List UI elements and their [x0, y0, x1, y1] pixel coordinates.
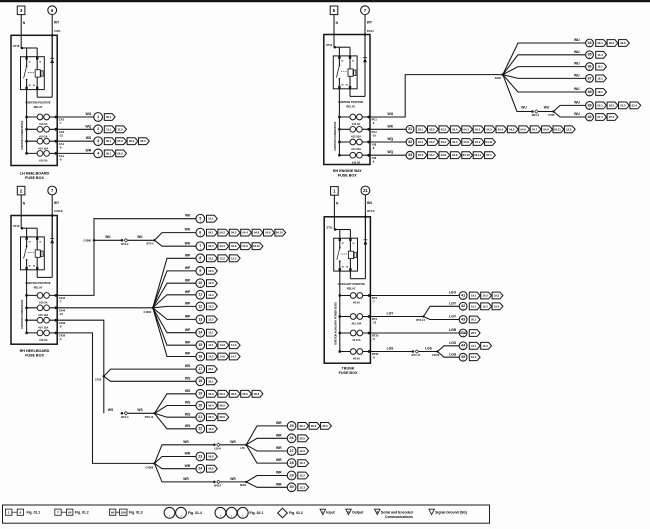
svg-text:WS: WS	[108, 408, 114, 412]
svg-text:WR: WR	[276, 446, 282, 450]
fuse F3 #14 10A row in RH HEELBOARD FUSE BOX	[25, 317, 57, 329]
fuse F2 #12 10A row in TRUNK FUSE BOX	[338, 314, 370, 326]
svg-text:20.1: 20.1	[208, 367, 214, 371]
svg-text:1: 1	[291, 453, 292, 455]
svg-text:04.8: 04.8	[231, 244, 237, 248]
svg-text:66: 66	[111, 510, 115, 514]
svg-text:11: 11	[198, 293, 202, 297]
svg-text:-10: -10	[372, 134, 376, 138]
wire terminal circle 18	[196, 377, 205, 386]
svg-text:7: 7	[199, 244, 201, 248]
splice K202	[495, 73, 504, 80]
terminal circle 6 (box1 WY feed)	[48, 6, 57, 15]
diode	[50, 216, 54, 278]
wire terminal circle 24	[196, 464, 205, 473]
svg-text:1: 1	[200, 297, 201, 299]
svg-text:1: 1	[200, 221, 201, 223]
svg-text:Y08: Y08	[372, 156, 377, 160]
connector stub PG1 -2	[372, 118, 378, 126]
svg-text:06.5: 06.5	[220, 404, 226, 408]
svg-text:1: 1	[200, 459, 201, 461]
wire WR branch circuit 26	[246, 433, 287, 444]
svg-text:85: 85	[29, 85, 31, 87]
svg-text:07.1: 07.1	[486, 153, 492, 157]
wire terminal circle 32	[406, 138, 414, 146]
svg-text:15.1: 15.1	[597, 65, 603, 69]
svg-text:06.5: 06.5	[220, 415, 226, 419]
fuse F2 #12 10A row in RH ENGINE BAY FUSE BOX	[338, 126, 370, 138]
svg-text:04.10: 04.10	[463, 153, 470, 157]
svg-text:1: 1	[97, 115, 99, 119]
wire terminal circle 4	[94, 149, 103, 158]
legend item serial and encoded communications symbol	[375, 509, 413, 519]
wire terminal circle 13	[196, 315, 205, 324]
fig refs circuit 13	[207, 316, 218, 323]
wire terminal circle 8	[196, 254, 205, 263]
svg-text:PG1: PG1	[372, 130, 378, 134]
wire terminal circle 26	[287, 434, 296, 443]
page top border	[0, 0, 650, 2]
fig refs circuit 32	[416, 139, 495, 146]
wire terminal circle 15	[196, 341, 205, 350]
svg-text:04.4: 04.4	[242, 231, 248, 235]
fuse F4 #10 5A row in RH HEELBOARD FUSE BOX	[25, 330, 57, 342]
svg-text:20.1: 20.1	[471, 318, 477, 322]
svg-text:WU: WU	[86, 112, 92, 116]
svg-text:22: 22	[198, 427, 202, 431]
wire terminal circle 23	[196, 452, 205, 461]
wire WU branch circuit 39	[554, 101, 586, 112]
terminal feed wire into TRUNK FUSE BOX (BT4-6)	[365, 195, 375, 240]
svg-text:11.2: 11.2	[482, 344, 488, 348]
connector stub BT3 -12	[372, 317, 377, 325]
svg-text:05.4: 05.4	[140, 139, 146, 143]
svg-text:1: 1	[200, 322, 201, 324]
fig refs circuit 34	[596, 40, 630, 47]
svg-text:#12 10A: #12 10A	[352, 322, 362, 326]
svg-text:21.1: 21.1	[208, 217, 214, 221]
fig refs circuit 24	[207, 465, 218, 472]
svg-text:WP: WP	[185, 315, 191, 319]
svg-text:P705: P705	[549, 113, 556, 117]
svg-text:#14 10A: #14 10A	[38, 146, 48, 150]
svg-text:1: 1	[200, 471, 201, 473]
terminal feed wire N into TRUNK FUSE BOX	[334, 195, 339, 230]
fig refs circuit 31	[416, 126, 575, 133]
fuse F1 #10 5A row in LH HEELBOARD FUSE BOX	[25, 114, 57, 126]
fig refs circuit 23	[207, 453, 218, 460]
svg-text:Fig. 01.4: Fig. 01.4	[188, 511, 202, 515]
splice P705	[549, 110, 556, 117]
svg-text:12.3: 12.3	[300, 485, 306, 489]
splice node C4360 (WP multi-splice)	[144, 307, 154, 314]
wire terminal circle 37	[586, 75, 594, 83]
svg-text:10: 10	[198, 281, 202, 285]
svg-text:14.2: 14.2	[220, 343, 226, 347]
svg-text:1: 1	[200, 359, 201, 361]
svg-text:ST10: ST10	[13, 224, 20, 228]
svg-text:04.7: 04.7	[532, 127, 538, 131]
wire LGS from trunk fuse box	[370, 346, 412, 351]
wire WU lower branch to PB connector	[503, 75, 532, 112]
svg-text:WP: WP	[185, 253, 191, 257]
svg-text:12.3: 12.3	[208, 293, 214, 297]
fig refs circuit 28	[298, 460, 309, 467]
svg-text:WY: WY	[54, 21, 60, 25]
splice node C4399 on WR	[146, 462, 156, 469]
legend item squares 7-65 Fig. 01.2	[55, 509, 89, 515]
wire WS branch circuit 21	[155, 412, 197, 417]
terminal square 3 (box1 N feed)	[17, 6, 25, 15]
fuse F1 #10 5A row in RH HEELBOARD FUSE BOX	[25, 293, 57, 305]
wire terminal circle 38	[586, 88, 594, 96]
svg-text:06.5: 06.5	[231, 392, 237, 396]
svg-text:RELAY: RELAY	[34, 285, 43, 289]
wire terminal circle 1	[94, 113, 103, 122]
power buss of LH HEELBOARD FUSE BOX	[21, 90, 26, 154]
svg-text:WP: WP	[185, 278, 191, 282]
wire terminal circle 28	[287, 459, 296, 468]
wire WU to splice P705	[538, 106, 553, 112]
svg-text:18.1: 18.1	[597, 90, 603, 94]
svg-text:5: 5	[199, 217, 201, 221]
svg-text:SH91: SH91	[240, 483, 247, 487]
svg-text:1: 1	[200, 420, 201, 422]
wire WS branch circuit 17	[104, 364, 196, 376]
connector stub C444 -10	[59, 308, 66, 316]
svg-text:26.2: 26.2	[311, 424, 317, 428]
svg-text:WQ: WQ	[387, 150, 393, 154]
legend item squares 1-6 Fig. 01.1	[6, 509, 41, 515]
wire WU branch circuit 35	[503, 50, 586, 75]
svg-text:26.1: 26.1	[471, 331, 477, 335]
svg-text:1: 1	[200, 286, 201, 288]
svg-text:ST16: ST16	[13, 44, 20, 48]
svg-text:04.11: 04.11	[554, 127, 561, 131]
svg-text:PB1-2: PB1-2	[532, 113, 540, 117]
svg-text:BT3-10: BT3-10	[145, 415, 154, 419]
fig refs circuit 8	[207, 255, 241, 262]
fig refs circuit 22	[207, 425, 218, 432]
fig refs circuit 43A	[469, 330, 480, 337]
wire terminal circle 5	[196, 214, 205, 223]
svg-text:1: 1	[220, 516, 221, 518]
svg-text:1: 1	[463, 348, 464, 350]
svg-text:#9 15A: #9 15A	[352, 338, 360, 342]
wire terminal circle 33	[406, 151, 414, 159]
svg-text:07.2: 07.2	[609, 115, 615, 119]
svg-text:04.6: 04.6	[254, 231, 260, 235]
splice BT3-5	[146, 239, 155, 246]
svg-text:87: 87	[342, 243, 344, 245]
diode	[363, 35, 367, 97]
svg-text:WK: WK	[185, 214, 191, 218]
fuse F1 #9 5A row in TRUNK FUSE BOX	[338, 293, 370, 305]
svg-text:1: 1	[200, 372, 201, 374]
svg-text:#10 5A: #10 5A	[39, 122, 47, 126]
svg-text:04.3: 04.3	[208, 244, 214, 248]
fig refs circuit 21	[207, 414, 229, 421]
legend item signal ground symbol	[429, 509, 467, 514]
svg-text:BT4-2: BT4-2	[121, 242, 129, 246]
wire LGY branch circuit 43	[424, 315, 460, 320]
svg-text:IGNITION POWER BUSS: IGNITION POWER BUSS	[21, 299, 24, 328]
svg-text:WU: WU	[388, 112, 394, 116]
svg-text:1: 1	[589, 69, 590, 71]
svg-text:BT35: BT35	[372, 352, 379, 356]
wire WP branch circuit 12	[153, 302, 196, 308]
svg-text:86: 86	[346, 84, 348, 86]
svg-text:65: 65	[68, 510, 72, 514]
svg-text:1: 1	[200, 273, 201, 275]
svg-text:LGY: LGY	[387, 311, 395, 315]
svg-text:WK: WK	[185, 241, 191, 245]
legend box	[3, 505, 490, 523]
splice BT3-10	[145, 412, 156, 419]
svg-text:04.4: 04.4	[498, 127, 504, 131]
wire WU branch circuit 34	[503, 38, 586, 75]
svg-text:BN: BN	[367, 201, 372, 205]
svg-text:FUSE BOX: FUSE BOX	[25, 176, 44, 180]
wire WK from RH heelboard fuse box	[57, 219, 196, 296]
terminal feed wire N into RH ENGINE BAY FUSE BOX	[334, 15, 339, 48]
power buss of TRUNK FUSE BOX	[334, 271, 339, 351]
connector stub C439 -9	[59, 334, 66, 342]
wire LGS branch circuit 45	[438, 352, 460, 358]
svg-text:IGNITION POWER BUSS: IGNITION POWER BUSS	[21, 120, 24, 149]
svg-text:26: 26	[290, 436, 294, 440]
svg-text:C4399: C4399	[146, 465, 154, 469]
node ST10	[13, 224, 23, 229]
svg-text:WP: WP	[185, 302, 191, 306]
svg-text:#12 10A: #12 10A	[351, 135, 361, 139]
svg-text:RELAY: RELAY	[347, 287, 356, 291]
svg-text:L50: L50	[240, 446, 245, 450]
fig refs circuit 27	[298, 448, 309, 455]
wire WP branch circuit 16	[153, 308, 196, 357]
wire WP branch circuit 8	[153, 253, 196, 307]
fuse F3 #14 10A row in LH HEELBOARD FUSE BOX	[25, 138, 57, 150]
svg-text:29: 29	[290, 473, 294, 477]
svg-text:CA1: CA1	[59, 142, 65, 146]
svg-text:87: 87	[29, 242, 31, 244]
svg-text:12.3: 12.3	[208, 304, 214, 308]
svg-text:WR: WR	[86, 148, 92, 152]
svg-text:WP: WP	[185, 290, 191, 294]
fig refs circuit 26	[298, 435, 309, 442]
wire WU circuit 1	[57, 112, 94, 117]
fig refs circuit 6	[207, 229, 286, 236]
svg-text:07.1: 07.1	[597, 115, 603, 119]
svg-text:LH HEELBOARD: LH HEELBOARD	[20, 172, 50, 176]
svg-text:PG14: PG14	[367, 29, 374, 33]
wire WU branch circuit 37	[503, 74, 586, 79]
svg-text:WU: WU	[574, 38, 580, 42]
svg-text:LGO: LGO	[449, 291, 457, 295]
svg-text:39: 39	[587, 103, 591, 107]
connector BT4-17	[412, 350, 421, 357]
svg-text:LGY: LGY	[449, 301, 457, 305]
wire terminal circle 22	[196, 424, 205, 433]
terminal square 1 (box4 N feed)	[331, 187, 339, 196]
svg-text:16: 16	[198, 354, 202, 358]
wire WS branch circuit 18	[104, 376, 196, 381]
svg-text:Input: Input	[326, 510, 335, 514]
fig refs circuit 15	[207, 342, 241, 349]
svg-text:06.2: 06.2	[117, 151, 123, 155]
svg-text:03.4: 03.4	[452, 127, 458, 131]
wire WS circuit 3	[57, 136, 94, 141]
svg-text:11.1: 11.1	[106, 127, 112, 131]
svg-text:WP: WP	[185, 340, 191, 344]
legend item squares 66-109 Fig. 01.3	[109, 509, 142, 515]
wire terminal circle 6	[196, 228, 205, 237]
fig refs circuit 2	[104, 126, 126, 133]
svg-text:FUSE BOX: FUSE BOX	[339, 371, 358, 375]
fig refs circuit 12	[207, 303, 218, 310]
connector stub BT35 -8	[372, 334, 379, 342]
svg-text:09.1: 09.1	[597, 41, 603, 45]
svg-text:86: 86	[346, 267, 348, 269]
wire terminal circle 31	[406, 125, 414, 133]
svg-text:19.3: 19.3	[494, 304, 500, 308]
fig refs circuit 38	[596, 89, 607, 96]
terminal circle 7 (box3 WY feed)	[361, 6, 370, 15]
svg-text:1: 1	[200, 309, 201, 311]
wire WP branch circuit 9	[153, 266, 196, 308]
svg-text:14.5: 14.5	[208, 355, 214, 359]
svg-text:85: 85	[342, 267, 344, 269]
fuse F4 #10 5A row in RH ENGINE BAY FUSE BOX	[338, 152, 370, 164]
svg-text:1: 1	[410, 132, 411, 134]
svg-text:-12: -12	[59, 134, 63, 138]
svg-text:#14 10A: #14 10A	[38, 325, 48, 329]
svg-text:1: 1	[463, 322, 464, 324]
svg-text:85: 85	[29, 265, 31, 267]
svg-text:RH ENGINE BAY: RH ENGINE BAY	[333, 169, 362, 173]
svg-text:13.1: 13.1	[208, 331, 214, 335]
wire terminal circle 39	[586, 102, 594, 110]
svg-text:1: 1	[8, 510, 10, 514]
wire WP from RH heelboard fuse box	[57, 307, 153, 309]
fig refs circuit 36	[596, 63, 607, 70]
svg-text:1: 1	[200, 396, 201, 398]
svg-text:06.1: 06.1	[106, 151, 112, 155]
svg-text:04.8: 04.8	[543, 127, 549, 131]
svg-text:WQ: WQ	[85, 124, 91, 128]
svg-text:Fig. 01.2: Fig. 01.2	[75, 510, 89, 514]
svg-text:03.3: 03.3	[620, 103, 626, 107]
svg-text:04.9: 04.9	[242, 244, 248, 248]
terminal square 5 (box3 N feed)	[330, 6, 338, 15]
wire WQ circuit 2	[57, 124, 94, 129]
svg-text:C444-E: C444-E	[54, 209, 63, 213]
svg-text:-10: -10	[59, 312, 63, 316]
svg-text:WS: WS	[185, 424, 191, 428]
terminal feed wire N into LH HEELBOARD FUSE BOX	[21, 15, 26, 48]
legend item circles Fig. 01.4	[164, 507, 202, 518]
svg-text:C4360: C4360	[83, 239, 91, 243]
svg-text:12.3: 12.3	[208, 317, 214, 321]
svg-text:WR: WR	[276, 482, 282, 486]
svg-text:04.3: 04.3	[486, 127, 492, 131]
fig refs circuit 10	[207, 280, 218, 287]
svg-text:LGS: LGS	[449, 352, 457, 356]
wire WP branch circuit 10	[153, 278, 196, 308]
wire terminal circle 20	[196, 401, 205, 410]
wire terminal circle 21	[196, 413, 205, 422]
svg-text:WR: WR	[276, 433, 282, 437]
fig refs circuit 25	[298, 423, 332, 430]
svg-text:Communications: Communications	[385, 515, 413, 519]
wire terminal circle 17	[196, 365, 205, 374]
fig refs circuit 20	[207, 402, 229, 409]
wire terminal circle 35	[586, 51, 594, 59]
svg-text:BT3: BT3	[372, 317, 377, 321]
svg-text:WU: WU	[574, 112, 580, 116]
svg-text:1: 1	[463, 360, 464, 362]
wire terminal circle 42	[459, 302, 467, 310]
wire terminal circle 16	[196, 352, 205, 361]
svg-text:13.1: 13.1	[208, 256, 214, 260]
svg-text:3: 3	[242, 516, 243, 518]
svg-text:1: 1	[200, 431, 201, 433]
svg-text:04.2: 04.2	[220, 231, 226, 235]
splice node C432 on WS	[95, 375, 105, 382]
svg-text:19.3: 19.3	[494, 294, 500, 298]
connector stub CA2 -7	[59, 118, 65, 126]
svg-text:WQ: WQ	[387, 137, 393, 141]
wire label WK	[185, 214, 191, 218]
svg-text:09.2: 09.2	[609, 41, 615, 45]
svg-text:04.3: 04.3	[441, 140, 447, 144]
wire terminal circle 3	[94, 137, 103, 146]
node junction at top edge of RH ENGINE BAY FUSE BOX	[364, 33, 367, 36]
splice L50	[240, 444, 247, 450]
svg-text:1: 1	[200, 235, 201, 237]
svg-text:#10 5A: #10 5A	[39, 338, 47, 342]
svg-text:12: 12	[198, 304, 202, 308]
wire WP branch circuit 15	[153, 308, 196, 345]
svg-text:19.1: 19.1	[471, 304, 477, 308]
svg-text:21: 21	[363, 188, 368, 193]
legend item diamond Fig. 02.2	[278, 508, 303, 518]
connector stub C444 -7	[59, 296, 66, 304]
svg-text:05.3: 05.3	[129, 139, 135, 143]
wire coil return loop	[37, 90, 52, 98]
svg-text:C444: C444	[59, 308, 66, 312]
svg-text:19: 19	[198, 392, 202, 396]
svg-text:1: 1	[291, 490, 292, 492]
svg-text:1: 1	[463, 335, 464, 337]
fuse F3 #14 10A row in RH ENGINE BAY FUSE BOX	[338, 139, 370, 151]
svg-text:9: 9	[199, 269, 201, 273]
svg-text:1: 1	[200, 408, 201, 410]
svg-text:TRUNK: TRUNK	[342, 366, 355, 370]
wire WQ circuit 32	[370, 137, 406, 142]
svg-text:C439: C439	[59, 321, 66, 325]
wire LGS branch circuit 44	[438, 341, 460, 352]
svg-text:18.1: 18.1	[597, 76, 603, 80]
svg-text:37: 37	[587, 76, 591, 80]
svg-text:16.1: 16.1	[300, 461, 306, 465]
svg-text:#10 5A: #10 5A	[352, 122, 360, 126]
svg-text:BT3-5: BT3-5	[146, 242, 154, 246]
svg-text:06.4: 06.4	[208, 415, 214, 419]
wire WK to splice BT3-5	[128, 235, 155, 240]
terminal circle 7 (box2 WY feed)	[48, 186, 57, 195]
svg-text:03.2: 03.2	[609, 103, 615, 107]
